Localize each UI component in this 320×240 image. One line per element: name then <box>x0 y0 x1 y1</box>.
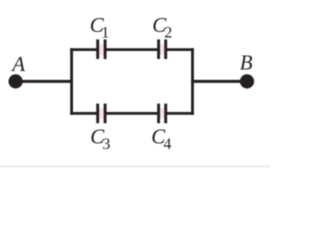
wire: loop to node B <box>191 80 247 83</box>
svg-text:4: 4 <box>163 136 171 153</box>
wire: right vertical side of loop <box>191 48 194 115</box>
wire: bottom edge, left segment to C3 <box>70 112 98 115</box>
capacitor C1 dielectric gap (pink) <box>99 44 104 55</box>
wire: bottom edge, middle segment C3 to C4 <box>105 112 159 115</box>
wire: top edge, middle segment C1 to C2 <box>105 48 159 51</box>
capacitor C4 plates <box>157 104 160 124</box>
svg-text:1: 1 <box>101 25 109 42</box>
svg-text:B: B <box>240 51 253 75</box>
separator rule at bottom <box>0 165 270 167</box>
wire: top edge, left segment to C1 <box>70 48 98 51</box>
capacitor C3 plates <box>96 104 99 124</box>
capacitor C2 plates <box>157 39 160 59</box>
capacitor C2 dielectric gap (pink) <box>160 44 165 55</box>
wire: bottom edge, right segment from C4 <box>166 112 194 115</box>
node A terminal dot <box>9 74 23 88</box>
svg-text:3: 3 <box>102 136 110 153</box>
capacitor C1 plates <box>96 39 99 59</box>
capacitor C3 dielectric gap (pink) <box>99 108 104 119</box>
node B terminal dot <box>240 74 254 88</box>
svg-text:A: A <box>10 52 25 76</box>
svg-text:2: 2 <box>164 25 172 42</box>
wire: top edge, right segment from C2 <box>166 48 194 51</box>
wire: left vertical side of loop <box>70 48 73 115</box>
capacitor C4 dielectric gap (pink) <box>160 108 165 119</box>
wire: node A to loop <box>16 80 73 83</box>
